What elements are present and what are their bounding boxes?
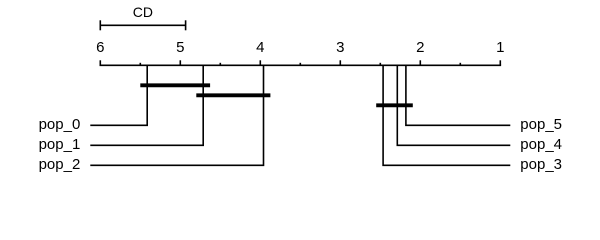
svg-text:pop_3: pop_3 bbox=[520, 156, 562, 173]
svg-text:5: 5 bbox=[176, 39, 184, 56]
svg-text:3: 3 bbox=[336, 39, 344, 56]
pop_1 connector bbox=[90, 65, 203, 145]
svg-text:2: 2 bbox=[416, 39, 424, 56]
svg-text:pop_5: pop_5 bbox=[520, 116, 562, 133]
major ticks bbox=[100, 60, 500, 65]
clique bar pop_1..pop_2 bbox=[198, 93, 268, 97]
svg-text:pop_4: pop_4 bbox=[520, 136, 562, 153]
CD interval bar bbox=[100, 20, 185, 30]
minor ticks bbox=[140, 63, 460, 66]
axis line bbox=[100, 64, 502, 66]
svg-text:1: 1 bbox=[496, 39, 504, 56]
svg-text:pop_2: pop_2 bbox=[39, 156, 81, 173]
pop_2 connector bbox=[90, 65, 263, 165]
axis tick labels bbox=[96, 39, 504, 56]
svg-text:CD: CD bbox=[133, 4, 153, 20]
svg-text:pop_0: pop_0 bbox=[39, 116, 81, 133]
svg-text:6: 6 bbox=[96, 39, 104, 56]
clique bar pop_3..pop_5 bbox=[378, 103, 411, 107]
svg-text:4: 4 bbox=[256, 39, 264, 56]
pop_3 connector bbox=[383, 65, 510, 165]
clique bar pop_0..pop_1 bbox=[142, 83, 208, 87]
pop_0 connector bbox=[90, 65, 147, 125]
pop_4 connector bbox=[397, 65, 510, 145]
svg-text:pop_1: pop_1 bbox=[39, 136, 81, 153]
pop_5 connector bbox=[406, 65, 510, 125]
